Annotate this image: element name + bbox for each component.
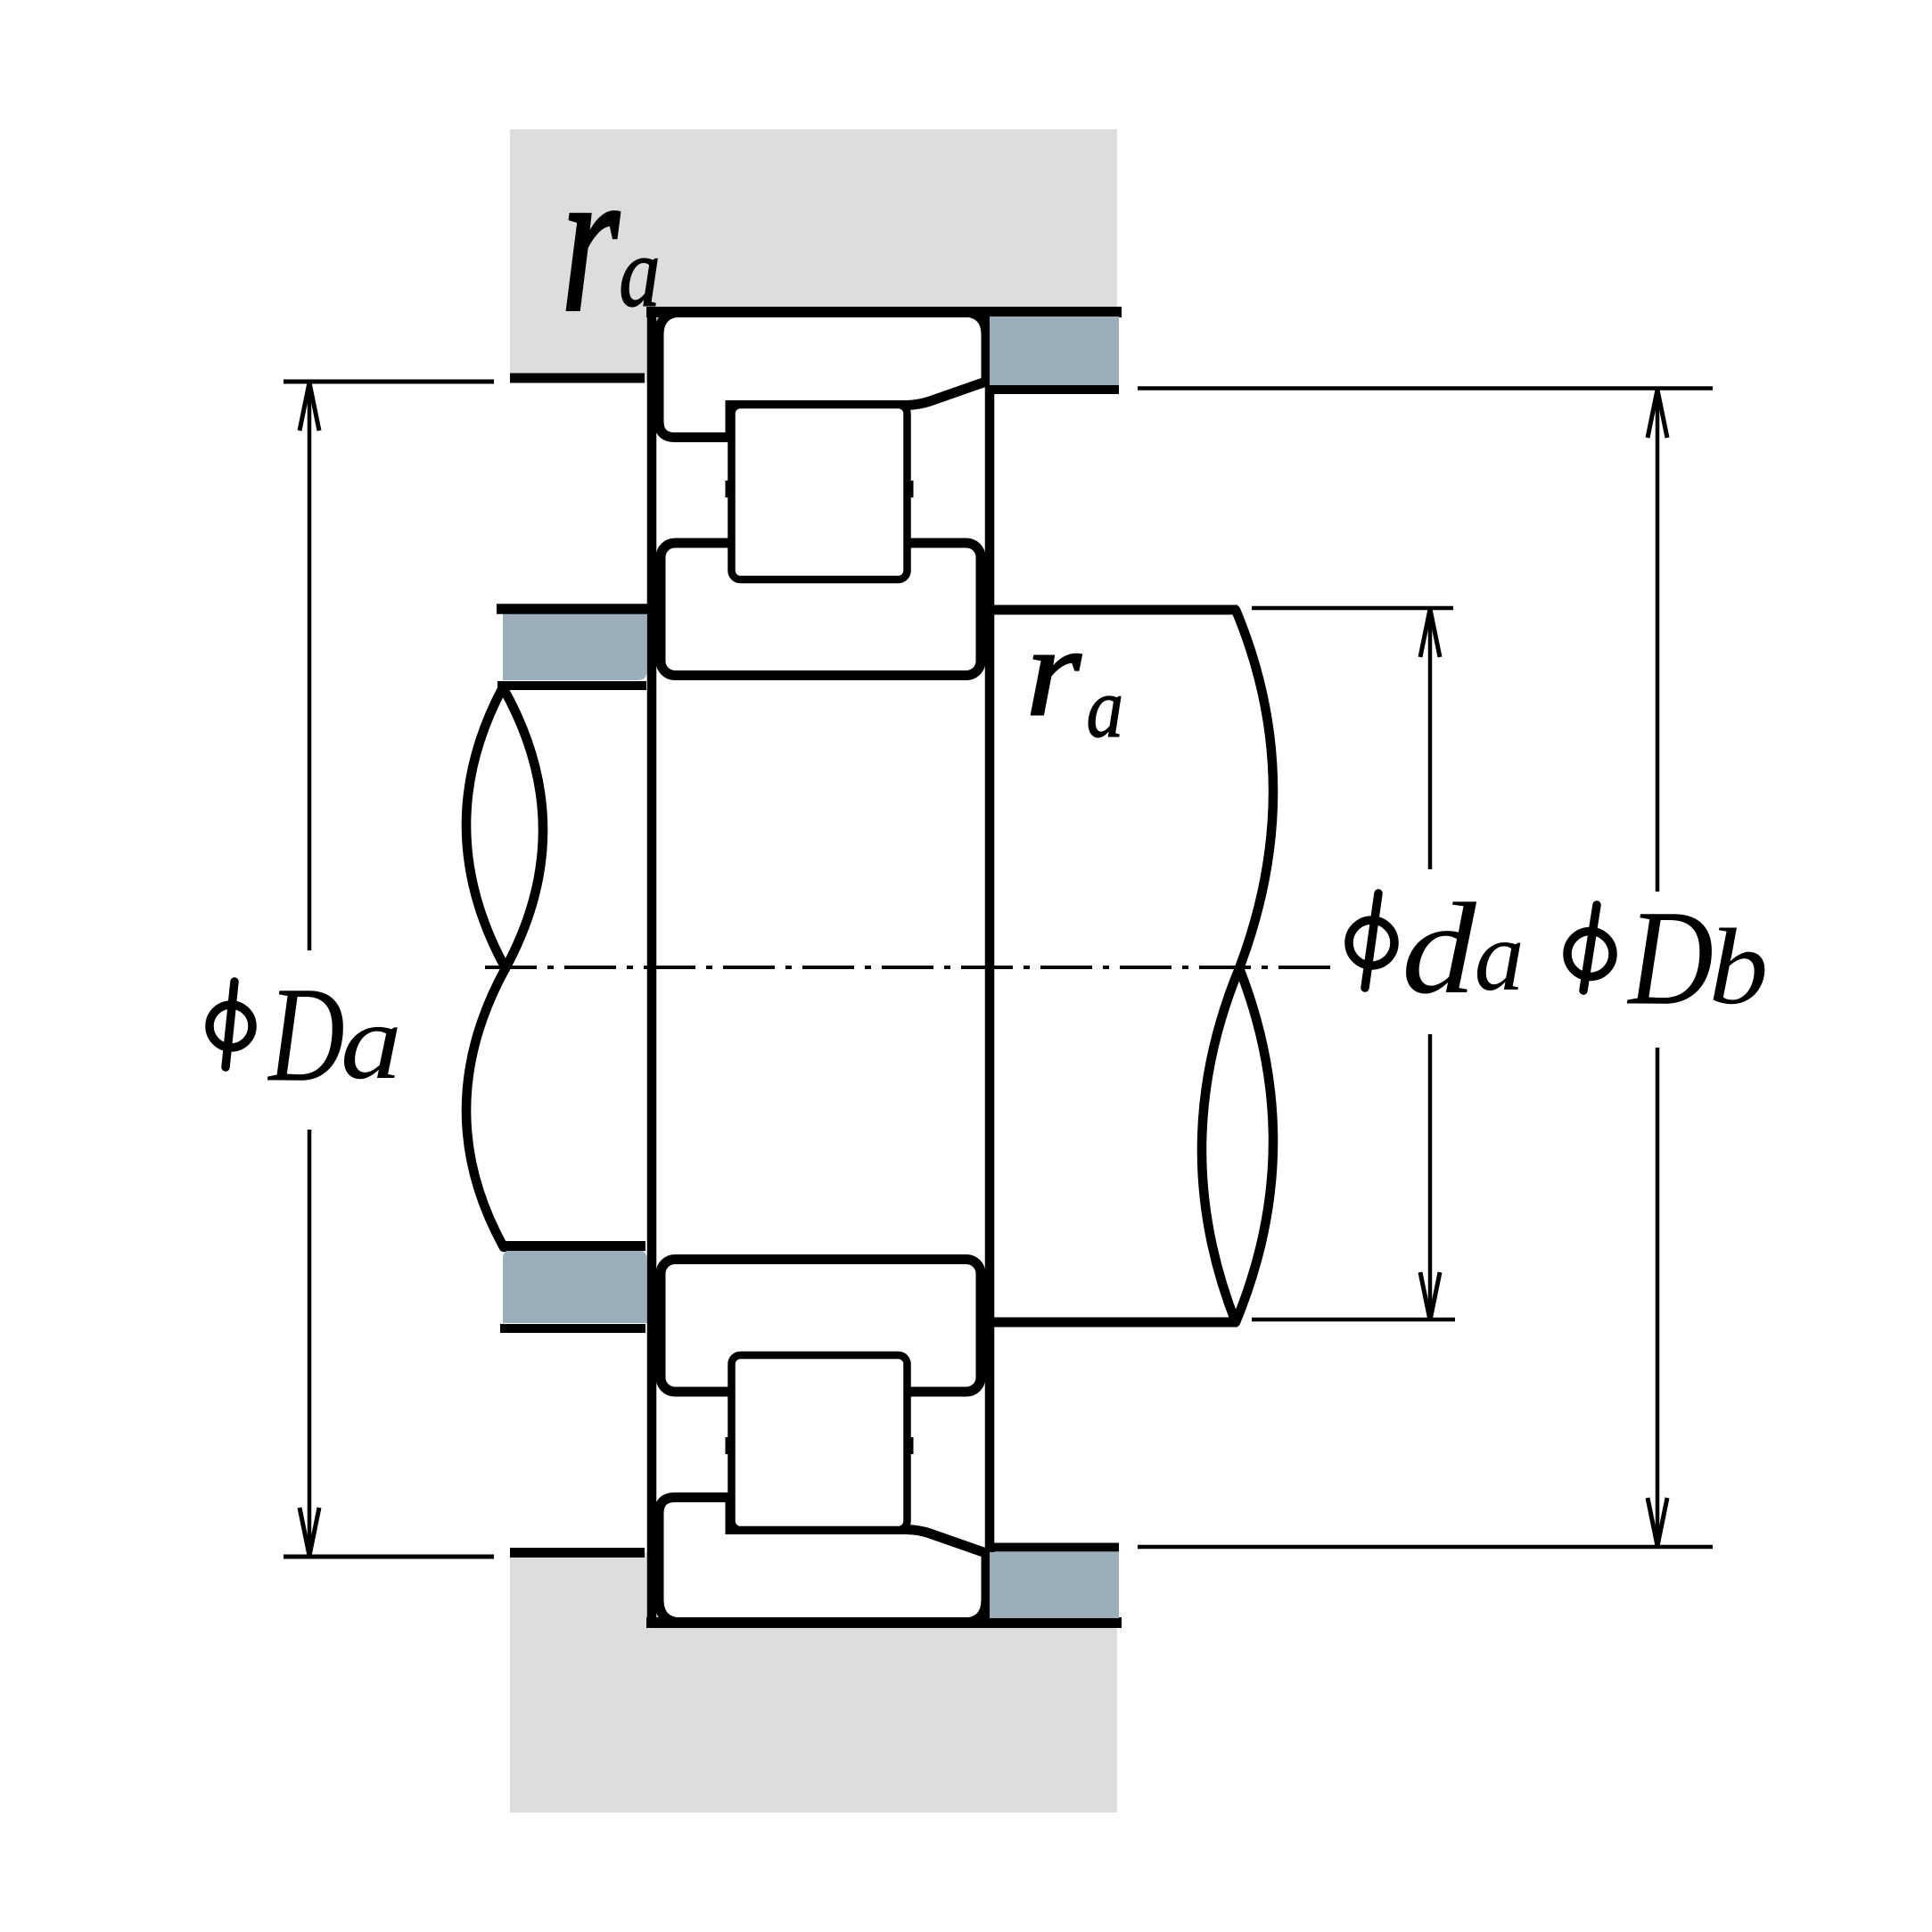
housing block bottom (light gray)	[510, 1552, 1117, 1813]
shaft break lines left (vesica above axis, arc below)	[466, 687, 543, 1247]
shaft surface line left-bottom	[500, 1324, 645, 1333]
dimension phi d_a: arrows	[1420, 609, 1440, 1320]
spacer bottom-right (blue)	[990, 1552, 1119, 1618]
cage tick left	[726, 481, 734, 497]
spacer bottom-left top line	[500, 1241, 645, 1251]
housing shoulder line bottom-left	[510, 1548, 645, 1558]
bearing top half section (outer ring, roller, inner ring)	[646, 312, 1122, 676]
housing shoulder line top-left	[510, 374, 645, 383]
svg-text:r: r	[561, 125, 620, 355]
dimension phiDa: arrows	[300, 382, 319, 1556]
shaft break lines right (arc above axis, vesica below)	[1202, 610, 1273, 1322]
bearing left face line	[647, 308, 657, 1627]
dimension phi d_a: dimension line	[1428, 610, 1433, 1320]
spacer top-right (blue)	[990, 317, 1119, 385]
roller top	[732, 405, 908, 580]
shaft shoulder top line right	[994, 605, 1237, 615]
shaft bottom line right	[994, 1318, 1237, 1328]
dimension phiDb: arrows	[1648, 390, 1667, 1546]
svg-text:D: D	[267, 958, 344, 1110]
spacer top-left top line	[497, 604, 648, 614]
center axis dash-dot line	[485, 966, 1340, 969]
label phiDb right	[1567, 882, 1768, 1033]
svg-text:a: a	[1475, 901, 1525, 1012]
svg-text:b: b	[1709, 906, 1769, 1026]
svg-text:d: d	[1402, 877, 1477, 1022]
svg-text:a: a	[619, 218, 660, 328]
dimension phiDb: extension lines	[1138, 389, 1713, 1548]
spacer ring line top of bottom-right	[986, 1543, 1119, 1552]
cage tick right	[906, 481, 914, 497]
spacer bottom-left (blue)	[503, 1250, 647, 1323]
label phi d_a right	[1349, 877, 1525, 1022]
label phiDa left	[210, 958, 402, 1110]
svg-text:D: D	[1626, 882, 1713, 1033]
inner ring top	[661, 543, 981, 676]
spacer top-left (blue)	[503, 614, 647, 681]
shaft surface line left-top	[497, 681, 646, 690]
dimension phi d_a: extension lines	[1252, 608, 1455, 1320]
spacer ring line bottom of top-right	[986, 385, 1119, 394]
bearing bottom half section (mirror)	[646, 1260, 1122, 1624]
dimension phiDa: extension lines	[284, 382, 494, 1557]
phi glyph	[210, 1005, 252, 1048]
outer ring top	[659, 312, 986, 438]
svg-text:r: r	[1026, 600, 1082, 742]
housing bore line top	[646, 307, 1122, 317]
svg-text:a: a	[1087, 662, 1124, 756]
dimension phiDa: dimension line	[308, 383, 312, 1555]
dimension phiDb: dimension line	[1656, 390, 1660, 1547]
housing block top (light gray)	[510, 129, 1117, 382]
bearing right face line	[985, 308, 995, 1627]
svg-text:a: a	[341, 982, 402, 1102]
